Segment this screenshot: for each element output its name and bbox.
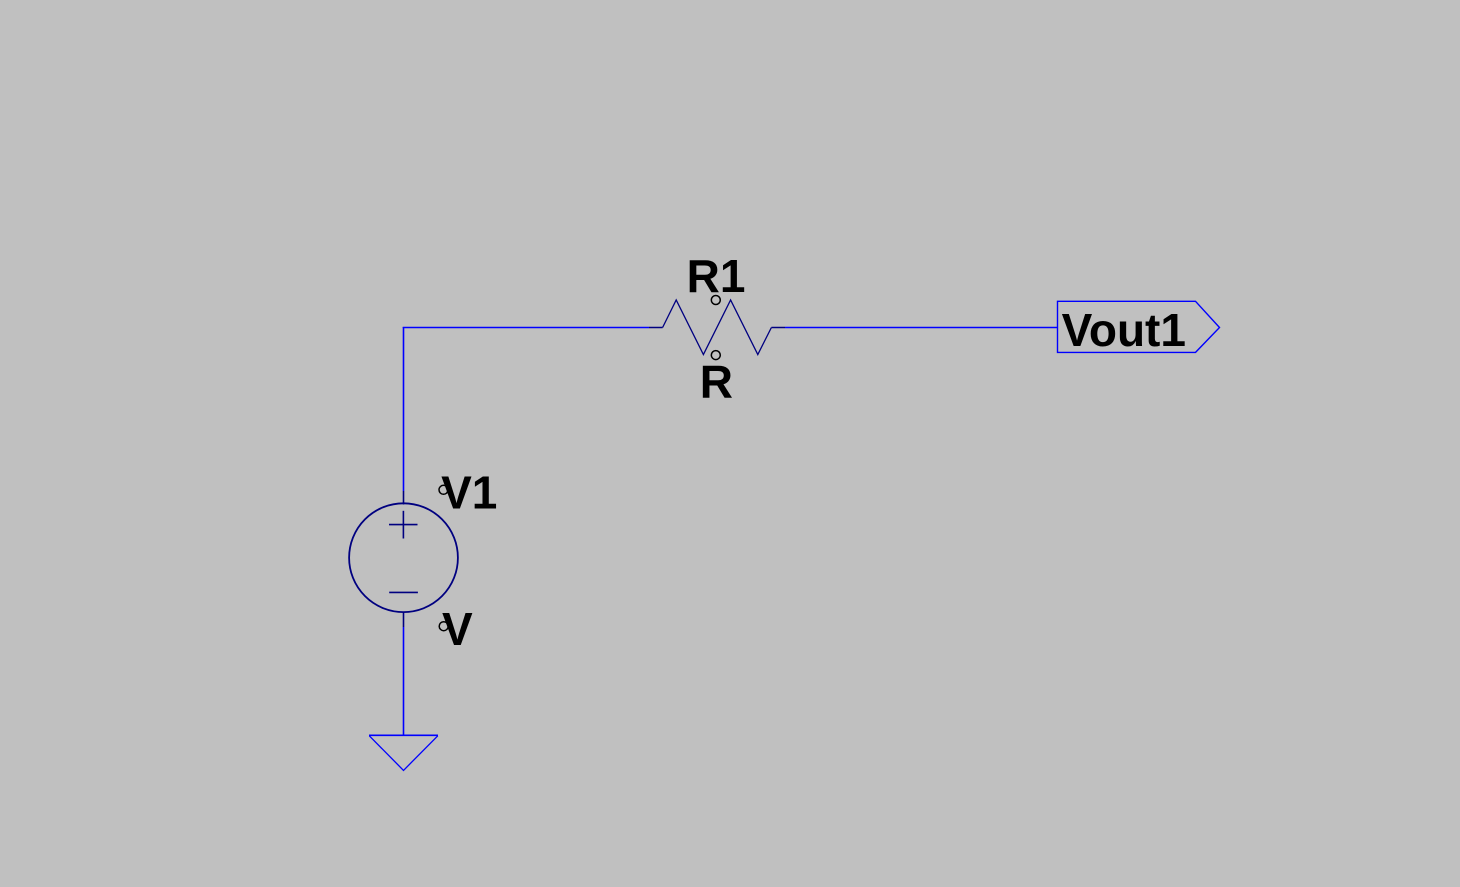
- svg-text:R1: R1: [687, 250, 746, 302]
- svg-text:V: V: [442, 603, 473, 655]
- svg-text:Vout1: Vout1: [1062, 304, 1186, 356]
- svg-text:V1: V1: [441, 467, 497, 519]
- svg-text:R: R: [700, 356, 733, 408]
